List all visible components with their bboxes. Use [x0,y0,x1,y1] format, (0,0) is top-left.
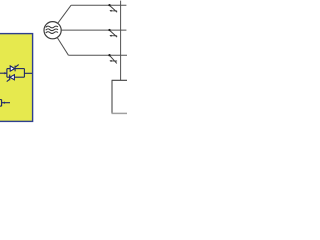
wave 2 [46,29,58,31]
breaker SW1 (top) [108,4,117,12]
bus (vertical) [120,1,122,81]
thyristor Q1 branch (top, pointing right) [7,68,10,70]
right bracket [23,69,25,78]
generator G1 (AC source circle) [44,22,61,39]
breaker SW3 (bottom) [108,54,117,63]
thyristor Q2 branch (bottom, pointing left) [14,76,24,78]
SVC equivalent block (yellow box) [0,34,33,122]
gate Q2 [7,80,10,82]
right lead [24,72,32,74]
left lead [0,72,7,74]
wire: top diagonal from generator [58,5,71,23]
background [0,0,127,126]
wire: top feeder [71,4,126,6]
wire: middle feeder [61,29,126,31]
left lead arrowhead [4,72,6,74]
thyristor valve pair (anti-parallel) inside yellow box [0,65,32,82]
wave 1 [46,26,58,28]
wire: bottom feeder [68,54,127,56]
wires [57,1,127,81]
wire: bottom diagonal from generator [57,37,69,55]
breaker SW2 (middle) [108,29,117,37]
load box (bottom right, clipped at image edge) [112,80,127,113]
small cut-off component at left edge [0,100,10,107]
gate Q1 [16,65,19,67]
left bracket [6,69,8,78]
wave 3 [46,32,58,34]
